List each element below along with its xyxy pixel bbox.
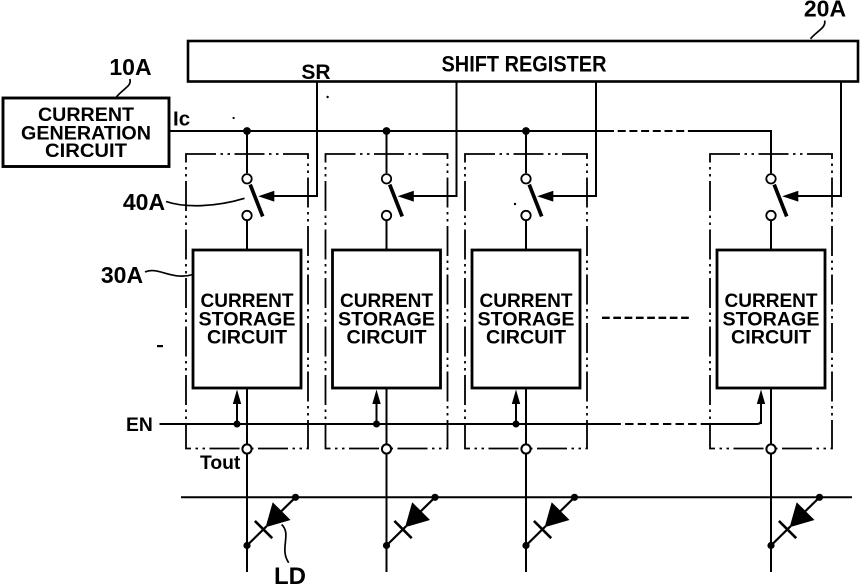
svg-text:CIRCUIT: CIRCUIT bbox=[207, 327, 287, 349]
cell 4 boundary (dash-dot box) bbox=[710, 154, 832, 449]
switch 40A cell 3: top contact bbox=[521, 174, 530, 183]
wire SR output drop cell 1 bbox=[274, 83, 318, 197]
wire Ic drop to switch cell 3 bbox=[525, 131, 527, 173]
svg-text:Tout: Tout bbox=[200, 453, 241, 474]
leader 20A bbox=[811, 21, 825, 39]
label CURRENT STORAGE CIRCUIT cell 2 bbox=[338, 290, 435, 349]
ellipsis dashes between storage circuits bbox=[602, 317, 689, 319]
node anode junction cell 4 bbox=[816, 494, 823, 501]
laser diode LD cell 1: cathode lead bbox=[247, 526, 267, 545]
laser diode LD cell 4: triangle bbox=[790, 502, 815, 527]
label LD bbox=[274, 563, 306, 584]
laser diode LD cell 4: cathode lead bbox=[771, 526, 791, 545]
laser diode LD cell 4: anode lead bbox=[804, 497, 820, 512]
wire switch to storage box cell 1 bbox=[246, 221, 248, 250]
current storage circuit box 30A cell 4 bbox=[717, 250, 825, 388]
switch 40A cell 4: blade bbox=[774, 185, 787, 217]
wire switch to storage box cell 3 bbox=[525, 221, 527, 250]
node EN junction cell 1 bbox=[234, 421, 241, 428]
label Tout bbox=[200, 453, 241, 474]
speckle artifacts from scan bbox=[157, 96, 516, 347]
laser diode LD cell 3: cathode bar bbox=[534, 521, 551, 538]
laser diode LD cell 4: cathode bar bbox=[779, 521, 796, 538]
laser diode LD cell 1: anode lead bbox=[280, 497, 296, 512]
svg-text:10A: 10A bbox=[109, 54, 151, 80]
terminal Tout cell 3 bbox=[521, 444, 530, 453]
svg-text:30A: 30A bbox=[101, 262, 143, 288]
label SHIFT REGISTER bbox=[442, 52, 607, 77]
node cathode junction cell 1 bbox=[243, 542, 250, 549]
wire EN enable riser cell 2 bbox=[376, 403, 378, 424]
wire Ic drop to switch cell 1 bbox=[246, 131, 248, 173]
node anode junction cell 1 bbox=[292, 494, 299, 501]
switch 40A cell 4: top contact bbox=[766, 174, 775, 183]
switch 40A cell 1: bottom contact bbox=[242, 211, 251, 220]
node EN junction cell 2 bbox=[373, 421, 380, 428]
svg-text:40A: 40A bbox=[123, 189, 165, 215]
label SR bbox=[301, 61, 330, 84]
terminal Tout cell 4 bbox=[766, 444, 775, 453]
wire cathode line cell 3 bbox=[525, 454, 527, 572]
label EN bbox=[126, 415, 153, 436]
leader LD bbox=[282, 525, 289, 563]
svg-text:EN: EN bbox=[126, 415, 153, 436]
svg-text:CIRCUIT: CIRCUIT bbox=[45, 140, 127, 162]
laser diode LD cell 2: cathode bar bbox=[394, 521, 411, 538]
label Ic bbox=[173, 108, 190, 131]
node Ic junction cell 3 bbox=[522, 127, 530, 135]
cell 1 boundary (dash-dot box) bbox=[186, 154, 308, 449]
laser diode LD cell 2: triangle bbox=[405, 502, 430, 527]
cell 2 boundary (dash-dot box) bbox=[326, 154, 448, 449]
current generation circuit box 10A bbox=[3, 98, 169, 167]
wire SR output drop cell 3 bbox=[553, 83, 597, 197]
wire cathode line cell 4 bbox=[770, 454, 772, 572]
node cathode junction cell 3 bbox=[522, 542, 529, 549]
arrowhead SR control cell 1 bbox=[258, 191, 274, 202]
laser diode LD cell 1: cathode bar bbox=[255, 521, 272, 538]
label CURRENT STORAGE CIRCUIT cell 4 bbox=[723, 290, 820, 349]
node anode junction cell 3 bbox=[571, 494, 578, 501]
laser diode LD cell 2: anode lead bbox=[420, 497, 436, 512]
node cathode junction cell 4 bbox=[767, 542, 774, 549]
leader 40A bbox=[166, 198, 245, 205]
wire EN enable riser cell 3 bbox=[515, 403, 517, 424]
label CURRENT STORAGE CIRCUIT cell 1 bbox=[199, 290, 296, 349]
wire anode rail bbox=[181, 496, 852, 498]
label CURRENT STORAGE CIRCUIT cell 3 bbox=[478, 290, 575, 349]
switch 40A cell 4: bottom contact bbox=[766, 211, 775, 220]
wire Ic drop to switch cell 2 bbox=[386, 131, 388, 173]
svg-text:CIRCUIT: CIRCUIT bbox=[486, 327, 566, 349]
wire Ic drop to switch cell 4 bbox=[770, 131, 772, 173]
wire EN enable riser cell 4 bbox=[760, 403, 762, 424]
laser diode LD cell 1: triangle bbox=[266, 502, 291, 527]
switch 40A cell 2: bottom contact bbox=[382, 211, 391, 220]
wire switch to storage box cell 4 bbox=[770, 221, 772, 250]
current storage circuit box 30A cell 1 bbox=[193, 250, 301, 388]
wire Ic bus dashed bbox=[606, 130, 695, 132]
svg-text:CIRCUIT: CIRCUIT bbox=[347, 327, 427, 349]
svg-text:20A: 20A bbox=[804, 0, 846, 22]
wire EN bus end into cell 4 bbox=[708, 404, 761, 424]
wire SR output drop cell 2 bbox=[413, 83, 457, 197]
leader 30A bbox=[145, 271, 193, 277]
svg-text:Ic: Ic bbox=[173, 108, 190, 131]
switch 40A cell 1: blade bbox=[250, 185, 263, 217]
wire EN enable riser cell 1 bbox=[236, 403, 238, 424]
switch 40A cell 3: blade bbox=[529, 185, 542, 217]
laser diode LD cell 2: cathode lead bbox=[387, 526, 407, 545]
terminal Tout cell 2 bbox=[382, 444, 391, 453]
label 20A bbox=[804, 0, 846, 22]
laser diode LD cell 3: cathode lead bbox=[526, 526, 546, 545]
leader 10A bbox=[117, 79, 131, 97]
wire storage output to Tout cell 1 bbox=[246, 388, 248, 444]
current storage circuit box 30A cell 2 bbox=[333, 250, 441, 388]
arrowhead SR control cell 4 bbox=[782, 191, 798, 202]
node Ic junction cell 1 bbox=[243, 127, 251, 135]
wire cathode line cell 1 bbox=[246, 454, 248, 572]
node anode junction cell 2 bbox=[431, 494, 438, 501]
wire Ic bus end into cell 4 bbox=[694, 131, 771, 173]
shift register box 20A bbox=[188, 41, 858, 82]
node Ic junction cell 2 bbox=[383, 127, 391, 135]
laser diode LD cell 3: anode lead bbox=[559, 497, 575, 512]
arrowhead SR control cell 2 bbox=[398, 191, 414, 202]
current storage circuit box 30A cell 3 bbox=[472, 250, 580, 388]
switch 40A cell 2: top contact bbox=[382, 174, 391, 183]
arrowhead SR control cell 3 bbox=[537, 191, 553, 202]
wire storage output to Tout cell 4 bbox=[770, 388, 772, 444]
wire EN bus solid bbox=[160, 423, 613, 425]
label 40A bbox=[123, 189, 165, 215]
wire EN bus dashed bbox=[613, 423, 710, 425]
cell 3 boundary (dash-dot box) bbox=[465, 154, 587, 449]
label 30A bbox=[101, 262, 143, 288]
wire cathode line cell 2 bbox=[386, 454, 388, 572]
wire SR output drop cell 4 bbox=[798, 83, 842, 197]
label CURRENT GENERATION CIRCUIT bbox=[21, 104, 151, 162]
wire storage output to Tout cell 2 bbox=[386, 388, 388, 444]
svg-text:SHIFT REGISTER: SHIFT REGISTER bbox=[442, 52, 607, 77]
svg-text:LD: LD bbox=[274, 563, 306, 584]
wire Ic bus solid bbox=[169, 130, 606, 132]
svg-text:SR: SR bbox=[301, 61, 330, 84]
wire storage output to Tout cell 3 bbox=[525, 388, 527, 444]
svg-text:CIRCUIT: CIRCUIT bbox=[731, 327, 811, 349]
arrowhead EN enable cell 3 bbox=[512, 390, 520, 405]
node cathode junction cell 2 bbox=[383, 542, 390, 549]
laser diode LD cell 3: triangle bbox=[545, 502, 570, 527]
wire switch to storage box cell 2 bbox=[386, 221, 388, 250]
label 10A bbox=[109, 54, 151, 80]
switch 40A cell 2: blade bbox=[390, 185, 403, 217]
terminal Tout cell 1 bbox=[242, 444, 251, 453]
arrowhead EN enable cell 4 bbox=[757, 390, 765, 405]
switch 40A cell 1: top contact bbox=[242, 174, 251, 183]
switch 40A cell 3: bottom contact bbox=[521, 211, 530, 220]
arrowhead EN enable cell 1 bbox=[233, 390, 241, 405]
arrowhead EN enable cell 2 bbox=[372, 390, 380, 405]
node EN junction cell 3 bbox=[513, 421, 520, 428]
